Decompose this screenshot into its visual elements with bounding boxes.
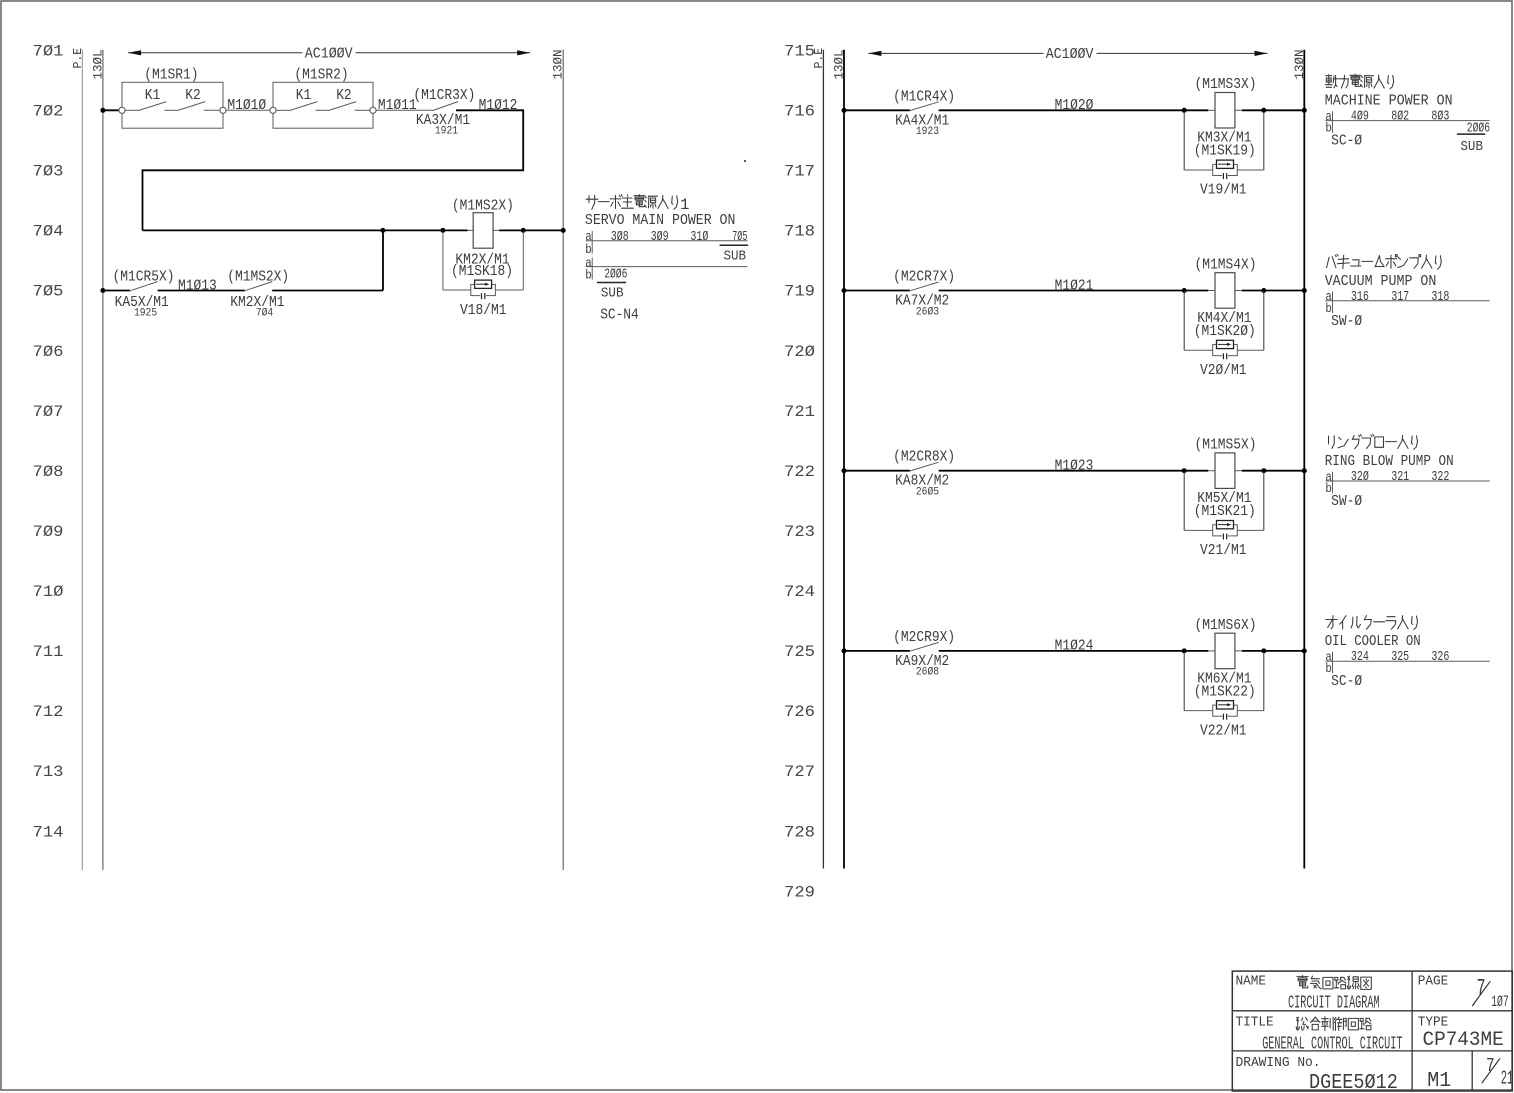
svg-text:4Ø9: 4Ø9: [1351, 109, 1369, 125]
svg-text:M1Ø11: M1Ø11: [378, 97, 417, 114]
title block: DRAWING No. cell: [1236, 1055, 1398, 1093]
coil M1MS3X: [1194, 76, 1257, 160]
svg-text:326: 326: [1431, 649, 1449, 665]
contact M2CR8X: [893, 449, 955, 499]
svg-text:3Ø9: 3Ø9: [651, 229, 669, 245]
junction node (suppressor right): [1261, 648, 1266, 653]
svg-text:26Ø5: 26Ø5: [916, 487, 939, 499]
wire: 130L to M1SR1 box (rung 702): [103, 109, 122, 111]
svg-text:7Ø7: 7Ø7: [33, 403, 64, 421]
node at 130L bus rung 719: [842, 288, 847, 293]
wire: rung 716: [844, 109, 1304, 111]
junction node (suppressor right): [1261, 108, 1266, 113]
surge suppressor V19/M1: [1184, 111, 1264, 198]
AC100V dimension (right half): [868, 46, 1267, 63]
svg-text:(M1SR1): (M1SR1): [144, 66, 198, 83]
svg-text:7Ø1: 7Ø1: [33, 42, 64, 60]
svg-text:713: 713: [33, 763, 64, 781]
svg-text:7Ø3: 7Ø3: [33, 163, 64, 181]
svg-text:7Ø8: 7Ø8: [33, 463, 64, 481]
relay contact box M1SR1: [119, 66, 226, 128]
svg-text:SW-Ø: SW-Ø: [1331, 313, 1362, 330]
svg-text:325: 325: [1391, 649, 1409, 665]
svg-text:(M1CR4X): (M1CR4X): [893, 88, 955, 105]
svg-text:727: 727: [784, 763, 815, 781]
title block: PAGE cell: [1418, 974, 1509, 1011]
contact M2CR7X: [893, 269, 955, 319]
svg-text:P.E: P.E: [72, 48, 85, 69]
node M1010: [226, 97, 270, 114]
svg-text:1Ø7: 1Ø7: [1491, 993, 1509, 1011]
svg-text:DGEE5Ø12: DGEE5Ø12: [1309, 1072, 1398, 1093]
svg-text:8Ø2: 8Ø2: [1391, 109, 1409, 125]
svg-text:728: 728: [784, 823, 815, 841]
svg-text:V2Ø/M1: V2Ø/M1: [1200, 362, 1247, 379]
130N bus (right half): [1293, 49, 1307, 868]
title block: NAME cell: [1236, 974, 1380, 1013]
svg-text:CP743ME: CP743ME: [1423, 1029, 1504, 1052]
svg-text:SC-N4: SC-N4: [600, 307, 639, 324]
svg-text:1925: 1925: [134, 307, 157, 319]
svg-text:71Ø: 71Ø: [33, 583, 64, 601]
svg-text:SERVO MAIN POWER ON: SERVO MAIN POWER ON: [585, 212, 736, 229]
wire: rung 705: [103, 231, 383, 290]
svg-text:723: 723: [784, 523, 815, 541]
svg-text:SUB: SUB: [724, 248, 747, 264]
svg-text:7Ø4: 7Ø4: [33, 223, 64, 241]
wire: rung 704 main: [143, 229, 564, 231]
svg-text:717: 717: [784, 163, 815, 181]
svg-text:716: 716: [784, 103, 815, 121]
contact M1CR3X: [413, 87, 475, 138]
node M1011: [376, 97, 432, 114]
svg-text:324: 324: [1351, 649, 1369, 665]
node at 130N bus rung 725: [1302, 648, 1307, 653]
svg-text:721: 721: [784, 403, 815, 421]
junction node (suppressor left): [1182, 468, 1187, 473]
svg-text:(M1SK22): (M1SK22): [1194, 683, 1256, 700]
svg-text:(M1CR5X): (M1CR5X): [113, 269, 175, 286]
svg-text:K2: K2: [336, 87, 352, 104]
svg-text:MACHINE POWER ON: MACHINE POWER ON: [1325, 93, 1453, 110]
svg-text:M1Ø13: M1Ø13: [178, 277, 217, 294]
svg-text:3Ø8: 3Ø8: [611, 229, 629, 245]
svg-text:26Ø8: 26Ø8: [916, 667, 939, 679]
svg-text:AC1ØØV: AC1ØØV: [305, 46, 353, 63]
svg-text:318: 318: [1431, 289, 1449, 305]
svg-text:72Ø: 72Ø: [784, 343, 815, 361]
svg-text:(M1MS3X): (M1MS3X): [1195, 76, 1257, 93]
svg-text:726: 726: [784, 703, 815, 721]
svg-text:712: 712: [33, 703, 64, 721]
svg-text:(M1SK21): (M1SK21): [1194, 503, 1256, 520]
contact M1CR5X: [113, 269, 175, 320]
svg-text:13ØN: 13ØN: [1293, 49, 1307, 79]
svg-text:13ØL: 13ØL: [91, 49, 105, 79]
svg-text:K1: K1: [145, 87, 161, 104]
130N bus (left half): [552, 49, 566, 870]
title block: [1232, 971, 1512, 1091]
annotation rung 722: RING BLOW PUMP ON: [1325, 434, 1490, 510]
contact M1MS2X (aux): [227, 269, 289, 320]
svg-text:V21/M1: V21/M1: [1200, 542, 1247, 559]
node at 130N bus rung 719: [1302, 288, 1307, 293]
svg-text:729: 729: [784, 883, 815, 901]
svg-text:M1Ø2Ø: M1Ø2Ø: [1055, 97, 1094, 114]
svg-text:7Ø2: 7Ø2: [33, 103, 64, 121]
svg-text:OIL COOLER ON: OIL COOLER ON: [1325, 633, 1421, 650]
svg-text:P.E: P.E: [813, 48, 826, 69]
svg-text:SC-Ø: SC-Ø: [1331, 673, 1362, 690]
svg-text:(M1SK18): (M1SK18): [451, 263, 513, 280]
node at 130N bus rung 722: [1302, 468, 1307, 473]
svg-text:7Ø5: 7Ø5: [732, 229, 747, 245]
junction node (suppressor right): [1261, 468, 1266, 473]
svg-text:TITLE: TITLE: [1236, 1016, 1274, 1031]
svg-text:(M1SK2Ø): (M1SK2Ø): [1194, 323, 1256, 340]
contact M2CR9X: [893, 629, 955, 679]
annotation: servo main power on: [585, 195, 748, 324]
svg-text:2ØØ6: 2ØØ6: [604, 267, 627, 283]
surge suppressor V20/M1: [1184, 292, 1264, 379]
svg-text:321: 321: [1391, 469, 1409, 485]
svg-text:711: 711: [33, 643, 64, 661]
svg-text:(M2CR7X): (M2CR7X): [893, 269, 955, 286]
P.E bus (left half): [72, 48, 85, 870]
title block: TYPE cell: [1418, 1016, 1504, 1052]
svg-text:M1Ø24: M1Ø24: [1055, 638, 1094, 655]
svg-text:725: 725: [784, 643, 815, 661]
svg-text:31Ø: 31Ø: [690, 229, 708, 245]
svg-text:7Ø5: 7Ø5: [33, 283, 64, 301]
coil M1MS6X: [1194, 617, 1257, 701]
wire: rung 722: [844, 470, 1304, 472]
node at 130N bus rung 704: [561, 228, 566, 233]
wire: rung 719: [844, 290, 1304, 292]
annotation rung 725: OIL COOLER ON: [1325, 616, 1490, 691]
svg-text:M1Ø1Ø: M1Ø1Ø: [227, 97, 266, 114]
svg-text:RING BLOW PUMP ON: RING BLOW PUMP ON: [1325, 453, 1454, 470]
svg-text:(M1SK19): (M1SK19): [1194, 143, 1256, 160]
relay contact box M1SR2: [270, 66, 376, 128]
svg-text:(M1MS2X): (M1MS2X): [452, 197, 514, 214]
node on 130L bus rung 702: [100, 108, 105, 113]
annotation rung 719: VACUUM PUMP ON: [1325, 254, 1490, 329]
svg-text:(M2CR8X): (M2CR8X): [893, 449, 955, 466]
svg-text:AC1ØØV: AC1ØØV: [1046, 46, 1094, 63]
svg-text:K2: K2: [185, 87, 201, 104]
wire: rung 725: [844, 650, 1304, 652]
svg-text:M1Ø21: M1Ø21: [1055, 277, 1094, 294]
svg-text:DRAWING No.: DRAWING No.: [1236, 1055, 1321, 1071]
svg-text:7: 7: [1486, 1055, 1495, 1077]
surge suppressor V18/M1: [443, 231, 523, 319]
svg-text:M1Ø12: M1Ø12: [479, 97, 518, 114]
title block: TITLE cell: [1236, 1016, 1403, 1055]
junction node (705 riser joins 704): [380, 228, 385, 233]
svg-text:714: 714: [33, 823, 64, 841]
svg-text:32Ø: 32Ø: [1351, 469, 1369, 485]
svg-text:CIRCUIT DIAGRAM: CIRCUIT DIAGRAM: [1288, 994, 1380, 1014]
junction node (suppressor right): [521, 228, 526, 233]
svg-text:SUB: SUB: [601, 285, 624, 301]
annotation rung 716: MACHINE POWER ON: [1325, 74, 1490, 155]
junction node (suppressor left): [1182, 648, 1187, 653]
node at 130N bus rung 716: [1302, 108, 1307, 113]
surge suppressor V22/M1: [1184, 652, 1264, 739]
junction node (suppressor right): [1261, 288, 1266, 293]
wire: rung 702 to 703 to 704 (heavy path): [143, 109, 525, 230]
svg-text:1921: 1921: [435, 126, 458, 138]
title block: sheet fraction 7/21: [1482, 1055, 1514, 1089]
svg-text:V18/M1: V18/M1: [460, 302, 507, 319]
svg-text:722: 722: [784, 463, 815, 481]
svg-text:724: 724: [784, 583, 815, 601]
130L bus (right half): [832, 49, 846, 868]
node at 130L bus rung 716: [842, 108, 847, 113]
svg-text:26Ø3: 26Ø3: [916, 306, 939, 318]
svg-text:(M1CR3X): (M1CR3X): [413, 87, 475, 104]
svg-text:719: 719: [784, 283, 815, 301]
svg-text:715: 715: [784, 42, 815, 60]
rung number labels 701-714: [33, 42, 64, 841]
svg-text:21: 21: [1501, 1067, 1514, 1089]
130L bus (left half): [91, 49, 105, 870]
junction node (suppressor left): [440, 228, 445, 233]
node at 130L bus rung 725: [842, 648, 847, 653]
svg-text:13ØL: 13ØL: [832, 49, 846, 79]
svg-text:(M2CR9X): (M2CR9X): [893, 629, 955, 646]
svg-text:VACUUM PUMP ON: VACUUM PUMP ON: [1325, 273, 1437, 290]
svg-text:NAME: NAME: [1236, 974, 1267, 989]
contact M1CR4X: [893, 88, 955, 138]
svg-text:V22/M1: V22/M1: [1200, 722, 1247, 739]
svg-text:GENERAL CONTROL CIRCUIT: GENERAL CONTROL CIRCUIT: [1262, 1035, 1402, 1055]
rung number labels 715-729: [784, 42, 815, 901]
surge suppressor V21/M1: [1184, 472, 1264, 559]
svg-text:V19/M1: V19/M1: [1200, 182, 1247, 199]
svg-text:1923: 1923: [916, 126, 939, 138]
svg-text:(M1MS4X): (M1MS4X): [1195, 256, 1257, 273]
svg-text:SW-Ø: SW-Ø: [1331, 493, 1362, 510]
coil M1MS2X (servo main contactor): [451, 197, 514, 280]
stray dot: [744, 160, 746, 162]
svg-text:(M1MS6X): (M1MS6X): [1195, 617, 1257, 634]
svg-text:M1Ø23: M1Ø23: [1055, 458, 1094, 475]
P.E bus (right half): [813, 48, 826, 869]
junction node (suppressor left): [1182, 288, 1187, 293]
svg-text:(M1MS5X): (M1MS5X): [1195, 437, 1257, 454]
svg-text:316: 316: [1351, 289, 1369, 305]
svg-text:(M1MS2X): (M1MS2X): [227, 269, 289, 286]
svg-text:K1: K1: [296, 87, 312, 104]
svg-text:322: 322: [1431, 469, 1449, 485]
svg-text:7Ø9: 7Ø9: [33, 523, 64, 541]
node at 130L bus rung 705: [100, 288, 105, 293]
svg-text:PAGE: PAGE: [1418, 974, 1449, 989]
svg-text:13ØN: 13ØN: [552, 49, 566, 79]
svg-text:M1: M1: [1427, 1070, 1451, 1093]
svg-text:7Ø4: 7Ø4: [256, 307, 273, 319]
svg-text:b: b: [585, 268, 592, 283]
svg-text:SC-Ø: SC-Ø: [1331, 133, 1362, 150]
AC100V dimension (left half): [128, 46, 530, 63]
svg-text:7Ø6: 7Ø6: [33, 343, 64, 361]
node at 130L bus rung 722: [842, 468, 847, 473]
svg-text:317: 317: [1391, 289, 1409, 305]
svg-text:(M1SR2): (M1SR2): [294, 66, 348, 83]
svg-text:SUB: SUB: [1460, 139, 1483, 155]
svg-text:718: 718: [784, 223, 815, 241]
junction node (suppressor left): [1182, 108, 1187, 113]
coil M1MS5X: [1194, 437, 1257, 520]
coil M1MS4X: [1194, 256, 1257, 340]
svg-text:8Ø3: 8Ø3: [1431, 109, 1449, 125]
